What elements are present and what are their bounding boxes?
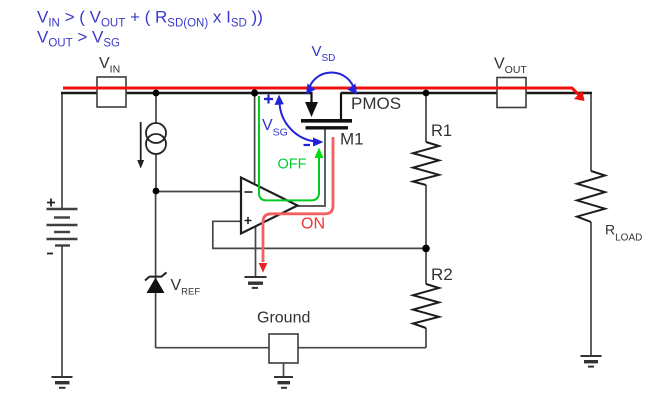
svg-text:ON: ON — [301, 216, 325, 233]
svg-text:VIN > ( VOUT + ( RSD(ON) x ISD: VIN > ( VOUT + ( RSD(ON) x ISD )) — [37, 8, 263, 30]
svg-text:Ground: Ground — [257, 310, 310, 327]
svg-text:R1: R1 — [431, 122, 452, 140]
svg-text:M1: M1 — [340, 130, 364, 149]
svg-text:PMOS: PMOS — [351, 94, 401, 113]
svg-text:R2: R2 — [431, 265, 453, 284]
svg-text:OFF: OFF — [278, 157, 307, 173]
